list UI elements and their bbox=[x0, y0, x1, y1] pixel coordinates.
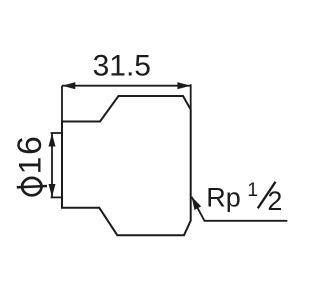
arrowhead left of 31.5 dimension bbox=[62, 82, 75, 89]
fitting body outline bbox=[62, 96, 191, 235]
leader arrowhead pointing at thread bbox=[192, 197, 202, 210]
dimension 31.5 right extension line bbox=[190, 84, 192, 109]
phi16 bottom extension line bbox=[51, 196, 62, 198]
svg-text:Rp: Rp bbox=[206, 183, 241, 213]
phi16 top extension line bbox=[51, 132, 62, 134]
dimension line 31.5 bbox=[62, 85, 191, 87]
dimension text phi16: phi symbol stem bbox=[17, 186, 47, 187]
svg-text:1: 1 bbox=[247, 179, 258, 201]
phi16 dimension line bbox=[51, 133, 53, 197]
leader line to Rp1/2 label bbox=[192, 197, 288, 221]
svg-text:2: 2 bbox=[267, 186, 282, 216]
arrowhead right of 31.5 dimension bbox=[177, 82, 190, 89]
svg-text:31.5: 31.5 bbox=[93, 49, 151, 82]
dimension text phi16: phi symbol circle bbox=[22, 178, 41, 195]
arrowhead top of phi16 dimension bbox=[49, 133, 56, 146]
arrowhead bottom of phi16 dimension bbox=[49, 184, 56, 197]
thread label fraction slash bbox=[258, 182, 276, 209]
dimension 31.5 left extension line bbox=[61, 86, 63, 122]
svg-text:6: 6 bbox=[11, 136, 49, 155]
svg-text:1: 1 bbox=[12, 157, 48, 175]
